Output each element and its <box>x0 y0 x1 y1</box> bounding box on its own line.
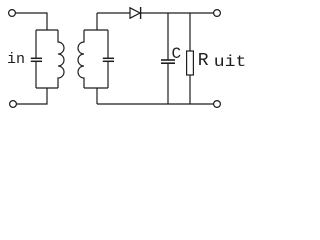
svg-text:C: C <box>172 45 182 63</box>
terminal top-right <box>214 10 221 17</box>
wire diode cathode to top-right terminal <box>141 12 214 14</box>
wire bottom-right rail <box>97 103 214 105</box>
wire secondary top stub <box>96 13 98 30</box>
label in <box>7 51 25 68</box>
wire top-left to primary <box>16 13 48 30</box>
wire secondary top to diode anode <box>97 12 130 14</box>
terminal bottom-left <box>10 101 17 108</box>
capacitor C1 primary tuning <box>31 30 42 88</box>
wire secondary bottom stub <box>96 88 98 104</box>
label uit <box>214 53 247 71</box>
wire secondary loop top <box>84 29 108 31</box>
svg-text:in: in <box>7 51 25 68</box>
diode D1 <box>130 7 141 19</box>
capacitor C2 secondary tuning <box>103 30 114 88</box>
terminal bottom-right <box>214 101 221 108</box>
inductor L2 secondary winding <box>78 30 84 88</box>
inductor L1 primary winding <box>58 30 64 88</box>
svg-text:uit: uit <box>214 53 247 71</box>
capacitor C smoothing <box>161 13 175 104</box>
wire secondary loop bottom <box>84 87 108 89</box>
wire primary to bottom-left terminal <box>17 88 48 104</box>
resistor R load <box>187 13 194 104</box>
svg-text:R: R <box>198 51 209 71</box>
label R <box>198 51 209 71</box>
wire primary loop top <box>36 29 58 31</box>
wire primary loop bottom <box>36 87 58 89</box>
terminal top-left <box>9 10 16 17</box>
label C <box>172 45 182 63</box>
